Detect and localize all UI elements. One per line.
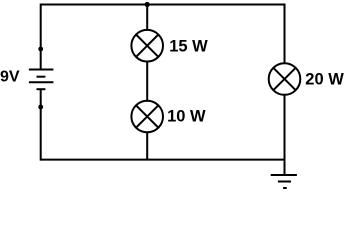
- wire: middle branch from top rail down to lamp L1: [146, 5, 148, 31]
- junction dot: battery top terminal node: [38, 47, 43, 52]
- junction dot: battery bottom terminal node: [38, 105, 43, 110]
- battery B1 9V: plate short: [37, 76, 46, 78]
- wire: bottom rail from left corner to right branch: [41, 159, 286, 161]
- wire: top rail from left corner to right corner: [41, 4, 285, 6]
- ground: bar 3 (smallest): [283, 187, 287, 189]
- wire: middle branch from lamp L2 down to bottom rail: [146, 132, 148, 160]
- ground: bar 2 (middle): [278, 181, 291, 183]
- svg-text:15 W: 15 W: [169, 38, 208, 56]
- svg-text:10 W: 10 W: [167, 107, 206, 125]
- svg-text:20 W: 20 W: [305, 70, 344, 88]
- wire: left vertical from battery negative plate down to bottom rail: [40, 89, 42, 160]
- battery B1 9V: plate long (top, +): [29, 69, 54, 71]
- svg-text:9V: 9V: [0, 69, 20, 86]
- lamp L3 20 W: circle with X: [269, 63, 301, 95]
- wire: left vertical from top rail down to battery positive plate: [40, 4, 42, 70]
- ground: bar 1 (widest): [271, 174, 297, 176]
- wire: middle branch between lamp L1 and lamp L2: [146, 61, 148, 101]
- wire: right branch from top rail down to lamp L3: [284, 4, 286, 64]
- lamp L1 15 W: circle with X: [131, 30, 163, 62]
- wire: right branch from lamp L3 down through bottom rail to ground: [284, 95, 286, 175]
- lamp L2 10 W: circle with X: [131, 101, 163, 133]
- battery B1 9V: plate short (bottom, -): [37, 88, 46, 90]
- junction dot: node A top rail to middle branch: [145, 2, 150, 7]
- battery B1 9V: plate long (second cell, +): [29, 81, 54, 83]
